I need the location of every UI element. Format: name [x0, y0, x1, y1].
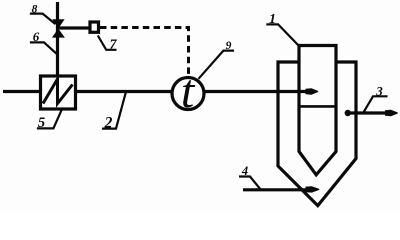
vessel 1: outer jacket [278, 62, 356, 206]
valve 8: upper triangle [52, 19, 64, 28]
vessel 1: inner tube [299, 46, 336, 175]
leader for label 5 [37, 110, 62, 128]
arrowhead: main inlet into vessel [306, 88, 319, 94]
leader for label 6 [30, 42, 57, 53]
wire: left inlet line to heat exchanger [3, 90, 40, 93]
leader for label 1 [266, 24, 299, 46]
leader for label 7 [98, 36, 117, 50]
temperature sensor 9: circle [172, 78, 204, 110]
wire: heat exchanger to temperature sensor [76, 90, 173, 93]
leader for label 9 [199, 51, 235, 79]
svg-text:3: 3 [375, 83, 383, 98]
leader for label 8 [30, 14, 55, 24]
inlet line 4 [243, 188, 308, 191]
liquid level line [299, 105, 336, 108]
valve 8: lower triangle [52, 29, 65, 38]
svg-text:4: 4 [241, 164, 248, 178]
impulse line (dashed) from regulator to sensor [100, 28, 189, 77]
svg-text:6: 6 [33, 29, 40, 44]
heat exchanger 5: body [41, 76, 76, 109]
arrowhead: outlet 3 [385, 110, 398, 116]
svg-text:7: 7 [110, 37, 118, 52]
outlet junction dot [345, 110, 351, 116]
wire: vertical coolant line through valve [56, 2, 59, 76]
svg-text:8: 8 [32, 4, 38, 16]
heat exchanger 5: zigzag coil [43, 79, 73, 104]
leader for label 3 [364, 96, 388, 112]
leader for label 2 [102, 93, 126, 129]
leader for label 4 [239, 177, 261, 190]
outlet line 3 [348, 111, 387, 114]
svg-text:t: t [181, 65, 196, 118]
svg-text:5: 5 [38, 115, 45, 131]
arrowhead: inlet 4 [306, 186, 320, 192]
svg-text:2: 2 [104, 115, 113, 132]
svg-text:1: 1 [269, 12, 276, 27]
wire: valve to regulator [58, 26, 90, 29]
regulator 7: body [90, 22, 99, 32]
svg-text:9: 9 [226, 40, 232, 52]
wire: sensor to vessel inlet [204, 90, 310, 93]
